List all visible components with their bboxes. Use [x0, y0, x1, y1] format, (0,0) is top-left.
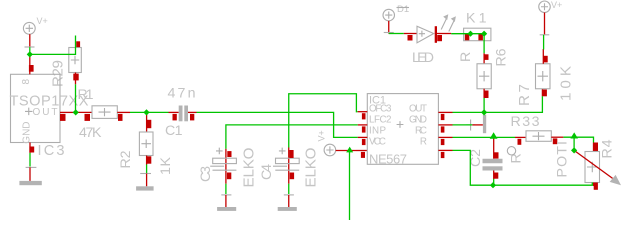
resistor R2 [139, 112, 153, 164]
ground under C4 [278, 184, 297, 211]
node junction VCC (triangle) [346, 147, 353, 153]
svg-text:RC: RC [415, 125, 427, 136]
capacitor C1 [169, 106, 197, 122]
wire junction down to wiper [573, 137, 575, 150]
ground under R2 [136, 165, 154, 191]
pin LFC2 [358, 124, 368, 126]
ground under C3 [217, 184, 236, 211]
pin OUT [438, 111, 452, 113]
wire C2 to R rail [493, 179, 495, 185]
wire V+ to LED anode [389, 33, 404, 35]
wire V+ to junction [29, 47, 31, 54]
node junction K1 left [467, 31, 473, 37]
svg-text:GND: GND [409, 115, 427, 126]
node junction R33/wiper (triangle) [570, 132, 578, 138]
node junction at V+/IC3 [27, 51, 33, 57]
resistor R29 [69, 41, 82, 84]
node junction wiper [571, 147, 577, 153]
IC1 NE567 [358, 94, 453, 167]
resistor R33 [515, 131, 563, 145]
node junction C2/rail [490, 182, 496, 188]
supply V+ symbol (at IC1 VCC) [317, 130, 357, 156]
capacitor C4 (ELKO) [273, 148, 299, 184]
wire C1 to INP corner [197, 112, 358, 137]
wire OFC3 to C4 [289, 94, 358, 148]
wire R1 to C1 [130, 111, 169, 113]
supply V+ symbol (above R7) [539, 0, 563, 50]
resistor R7 [536, 49, 551, 96]
svg-text:47K: 47K [79, 125, 102, 141]
capacitor C7 pin [472, 124, 483, 126]
wire RC row to R33 [453, 136, 516, 138]
svg-text:47n: 47n [168, 86, 196, 102]
svg-text:D1: D1 [397, 4, 409, 15]
wire LFC2 to C3 [226, 125, 358, 149]
potentiometer R4 (POTI) [574, 143, 621, 190]
node junction IC3-OUT/R29/R1 [73, 109, 79, 115]
wire R29 bottom to OUT junction [75, 84, 77, 112]
supply V+ symbol (above LED D1) [383, 9, 395, 33]
svg-text:NE567: NE567 [369, 151, 407, 166]
node junction OUT/R6 [481, 109, 487, 115]
svg-text:OUT: OUT [409, 104, 427, 115]
svg-text:INP: INP [369, 125, 386, 136]
pin GND [438, 124, 452, 126]
capacitor C3 (ELKO) [210, 148, 236, 184]
relay coil K1 [464, 28, 491, 41]
pin RC [438, 136, 452, 138]
svg-text:IC3: IC3 [38, 143, 65, 159]
svg-text:8: 8 [21, 79, 32, 85]
supply V+ symbol (left, above IC3) [23, 16, 47, 47]
wire R33 to POTI top corner [563, 137, 593, 142]
svg-text:GND: GND [22, 121, 33, 143]
LED arrows [441, 19, 446, 30]
wire OUT row (IC1 to R7 corner) [453, 96, 543, 112]
svg-text:R6: R6 [494, 48, 510, 66]
svg-text:R29: R29 [50, 60, 67, 87]
ground under IC3 [19, 153, 41, 185]
svg-text:R: R [458, 52, 474, 62]
svg-text:ELKO: ELKO [303, 147, 320, 187]
wire R pin to rail [453, 150, 593, 185]
svg-text:R33: R33 [511, 114, 540, 130]
capacitor C2 [483, 137, 503, 179]
pin INP [358, 136, 368, 138]
IC3 TSOP17XX [11, 56, 76, 153]
pin OFC3 [358, 111, 368, 113]
svg-text:POTI: POTI [555, 141, 571, 178]
svg-text:C4: C4 [259, 164, 275, 180]
svg-text:R2: R2 [118, 150, 134, 168]
svg-text:C1: C1 [165, 123, 183, 139]
wire VCC down (off bottom) [349, 152, 351, 220]
node junction RC/C2 (triangle) [490, 132, 498, 139]
svg-text:R1: R1 [78, 87, 94, 103]
svg-text:OFC3: OFC3 [369, 104, 392, 115]
pin VCC wire/rect [356, 150, 367, 152]
capacitor C7 (origin cross) [466, 120, 475, 131]
resistor R6 [477, 53, 491, 98]
svg-text:R4: R4 [600, 139, 616, 158]
wire K1 to R6 [483, 34, 485, 54]
svg-text:LFC2: LFC2 [369, 115, 392, 126]
node junction K1 right [481, 31, 487, 37]
svg-text:C3: C3 [198, 166, 214, 182]
svg-text:10K: 10K [558, 66, 575, 101]
svg-text:LED: LED [412, 50, 434, 66]
pin R [438, 149, 452, 151]
wire junction to R29 top [30, 36, 76, 55]
svg-text:V+: V+ [317, 130, 327, 141]
svg-text:ELKO: ELKO [241, 147, 258, 187]
LED D1 [404, 14, 456, 43]
svg-text:R: R [420, 136, 427, 147]
wire GND row to C7 [453, 124, 473, 126]
capacitor C7 plate [483, 115, 486, 133]
wire R6 to OUT row [483, 98, 485, 112]
svg-text:V+: V+ [37, 16, 48, 26]
svg-text:V+: V+ [551, 0, 562, 10]
svg-text:1K: 1K [158, 156, 174, 175]
wire LED to K1 [451, 33, 484, 35]
resistor R1 [76, 106, 130, 121]
node junction R2 top [143, 109, 149, 115]
svg-text:VCC: VCC [369, 136, 386, 147]
